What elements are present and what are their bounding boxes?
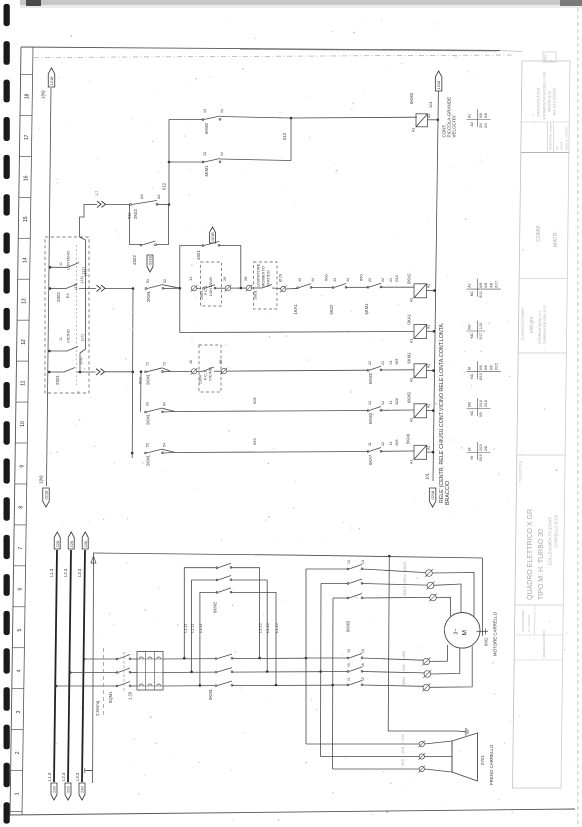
text LIMITATORE MOMENTO STATICO [256,263,271,287]
connector chevron row 288 [97,285,106,291]
svg-text:2S03: 2S03 [200,291,204,300]
label 1(N) top [41,90,46,99]
svg-text:02: 02 [361,677,365,681]
svg-text:HI: HI [470,456,474,460]
contact 6KM2 pole3 [216,588,232,593]
svg-text:44: 44 [311,278,315,282]
bypass branch 4S01 top [180,246,203,289]
node junction row204 x169 [168,203,171,206]
contact 5KM1 pole3 [215,681,233,686]
svg-text:1/15: 1/15 [479,323,483,330]
svg-text:2KM1: 2KM1 [146,413,151,425]
svg-text:2KM1: 2KM1 [146,290,151,302]
svg-text:L1.11: L1.11 [182,623,187,633]
label 660 [359,274,364,281]
label 0Y01 [480,755,485,765]
label 1.20 [128,691,133,700]
svg-text:VIA BRESCIA BOCELLI 240: VIA BRESCIA BOCELLI 240 [543,72,547,120]
svg-text:A4: A4 [157,194,161,199]
svg-text:230: 230 [83,540,88,547]
node junction x141 y372 [140,370,143,373]
svg-text:Ø 29: Ø 29 [279,274,283,282]
svg-text:L2.3: L2.3 [63,568,68,577]
relay coil 6KM2 [414,404,427,418]
svg-text:DISEGNO/DRAW: DISEGNO/DRAW [521,610,525,632]
svg-text:NC: NC [470,410,474,416]
svg-text:6/11: 6/11 [479,291,483,298]
svg-text:28: 28 [243,276,248,281]
contact 2K02 A3-A4 [130,201,158,206]
svg-text:230: 230 [80,786,85,793]
label A1 6KM1 [410,378,414,382]
connector flag L2.3 bottom [65,783,71,800]
wire riser x321 [320,584,323,757]
title block divider 1 [521,152,569,154]
svg-text:~2/-N: ~2/-N [401,746,405,755]
label 2K02 [133,209,138,219]
label 6KM2 row119 [203,109,224,134]
svg-text:0Y01: 0Y01 [480,755,485,765]
label 1KA1 [293,278,315,315]
wire pole outputs [130,659,137,686]
wire rung288 to x180 [163,285,180,289]
svg-text:3: 3 [16,710,22,713]
relay coil 0KN2 [414,284,427,298]
svg-text:3S01: 3S01 [253,289,258,299]
contact power pole3 [116,682,131,687]
svg-text:2S01: 2S01 [55,375,60,385]
svg-text:COMM:: COMM: [536,224,542,242]
label 2S0b [199,375,203,384]
connector flag 0218 under 4S02 [147,255,153,272]
node junction x306 rung [305,657,308,660]
svg-text:26: 26 [218,359,223,364]
svg-text:~1/-N: ~1/-N [401,734,405,743]
wire rung453 [163,449,369,453]
svg-text:2S04: 2S04 [199,375,203,384]
svg-text:TITOLO/TITLE: TITOLO/TITLE [519,461,523,482]
svg-text:A2: A2 [427,364,431,368]
wire 6KM2 out1 [231,568,260,658]
terminal motor U2 [422,658,430,666]
title block QUADRO text [527,509,559,600]
switch 2S01 contact VICINO [67,347,78,352]
wire rung372 c [227,369,368,372]
svg-text:6KM1: 6KM1 [407,352,412,364]
contact 6KM1 21-22 [367,283,382,288]
svg-text:CLIENTE/CUSTOMER: CLIENTE/CUSTOMER [521,307,525,340]
svg-text:03: 03 [347,649,351,653]
ground symbol PE [85,768,93,773]
label 6M1 [484,637,489,646]
wire row 267 LONTANO [50,266,68,268]
label 26 [222,276,227,281]
svg-text:611: 611 [127,212,132,219]
mark D bottom [386,809,389,814]
svg-text:LONTANO: LONTANO [66,251,71,270]
connector chevron row 372 [96,369,105,375]
svg-text:E4: E4 [66,293,70,298]
branch x141 to rung410 [140,372,142,412]
node junction L3 tap [83,658,86,661]
svg-text:Nr. 6 FOGLIO: Nr. 6 FOGLIO [527,614,531,632]
connector flag L3.3 top [82,532,88,549]
contact limitatore [252,285,281,289]
label 2S01 [55,375,60,385]
contact power pole2 [116,668,131,673]
label E4 [66,293,70,298]
svg-text:L3.11: L3.11 [198,623,203,633]
svg-text:U2/1V: U2/1V [403,561,407,571]
label 6QM1 [108,691,113,703]
node junction bus y370 [432,369,435,372]
svg-text:5/10: 5/10 [479,454,483,461]
svg-text:04: 04 [361,649,365,653]
wire top contact feed3 [333,597,348,599]
label 11 rung372 [188,359,193,364]
node junction L1 tap [55,685,58,688]
node junction bus y331 [433,330,436,333]
wire PE horizontal [94,553,483,558]
label 6KM2 rung372 [368,361,385,384]
svg-text:63: 63 [146,402,150,406]
relay coil 0KA1 [414,325,427,339]
svg-text:A2: A2 [427,325,431,329]
svg-text:A2: A2 [427,446,431,450]
svg-text:101: 101 [428,101,433,108]
svg-text:1218: 1218 [436,80,441,90]
label L2.12 [265,622,270,633]
wire row 204 right [157,204,169,206]
svg-text:6/6: 6/6 [479,365,483,370]
text CONT PICCOLA-GRANDE VELOCITA [441,97,456,138]
svg-text:G10: G10 [395,275,399,282]
connector flag 021B above 4S01 [210,227,216,243]
wire coil 5KA6 to bus [427,451,434,453]
connector flag 1218 top of 1(N) [48,68,55,87]
enclosure F.C.1 LONTANO [201,262,222,306]
label 11 B26 [389,398,399,404]
bypass loop 4S02 [130,205,169,245]
label 513 [282,132,287,140]
contact table 0KN2 [467,279,501,298]
wire row 288 from 1(N) [50,288,66,290]
label L1.3 bottom [47,772,52,781]
label 12 [188,276,193,281]
svg-text:1(N): 1(N) [39,475,44,484]
svg-text:612: 612 [162,182,167,190]
label contact rung412 [368,401,385,424]
svg-text:L3.3: L3.3 [77,568,82,577]
wire row162 right [220,159,291,161]
svg-text:0218: 0218 [148,255,153,265]
svg-text:21: 21 [381,361,385,365]
selector switch enclosure 2S0x [45,237,89,393]
svg-text:2.5mmq: 2.5mmq [95,700,100,716]
label 605 [252,397,257,404]
svg-text:11: 11 [21,380,27,385]
connector flag L1.3 bottom [51,783,57,800]
svg-text:43: 43 [298,278,302,282]
terminal 26 rung288 [225,285,232,292]
svg-text:604: 604 [138,377,143,384]
label A1 6KM2 [410,418,414,422]
label 101 top bus [428,101,433,108]
svg-text:2/4: 2/4 [484,123,488,128]
label V2-1 [403,574,407,584]
node junction x321 rung [319,670,322,673]
svg-text:22: 22 [381,278,385,282]
svg-text:229: 229 [66,786,71,793]
svg-text:(12): (12) [74,283,78,290]
svg-text:26: 26 [222,276,227,281]
contact rung pole3 [347,681,363,686]
svg-text:8: 8 [19,506,25,509]
svg-text:2K02: 2K02 [133,209,138,219]
svg-text:1.7: 1.7 [95,191,99,196]
wire terms to motor top [432,573,474,617]
label 2S0x fc1 [200,291,204,300]
label W2-2 [402,677,406,685]
node junction bus y120 [437,119,440,122]
wire tap up L1.11 [184,568,217,659]
node junction L2 tap [69,671,72,674]
earth arrow mark [91,556,96,563]
svg-text:2S02: 2S02 [56,292,61,302]
wire row 204 left [84,204,97,206]
svg-text:4: 4 [16,669,22,672]
wire brake links [424,741,452,772]
label 600 [324,274,329,281]
contact rung pole2 [347,667,363,672]
label A1 0KN2 [410,298,414,302]
label L3.12 [258,622,263,633]
svg-text:51: 51 [146,279,150,283]
svg-text:021B: 021B [210,232,215,242]
svg-text:2/15: 2/15 [479,444,483,451]
svg-text:6KM3: 6KM3 [368,412,373,424]
terminal motor U1 [425,569,433,577]
terminal motor V1 [426,581,434,589]
svg-text:1KA1: 1KA1 [293,304,298,315]
svg-text:6KM2: 6KM2 [407,391,412,403]
svg-text:14: 14 [220,152,224,156]
node junction bus y452 [432,451,435,454]
switch 2S02 contact main [66,245,77,385]
contact table 6KM2 [467,398,491,417]
connector flag 1218 top of bus [435,71,442,91]
label W2-1 [403,585,407,596]
contact power pole1 [116,655,131,660]
wire rung288 chevron to junction [105,288,134,290]
wire 5KM1 outputs [232,658,333,685]
svg-text:0KA1: 0KA1 [407,314,412,325]
node junction out2 [266,670,269,673]
wire tap L2 row [70,672,117,674]
label brake wire1 [401,734,405,743]
svg-text:A1: A1 [468,283,472,287]
svg-text:W2/2: W2/2 [402,677,406,685]
node junction tap3 [199,684,202,687]
svg-text:VICINO: VICINO [66,329,71,343]
motor PE tick [477,627,489,636]
wire coil 0KN2 to bus [427,290,435,292]
connector flag L2.3 top [68,532,74,549]
wire rung372 chevron to junction [104,371,133,373]
enclosure LIMITATORE MOMENTO STATICO [254,262,278,309]
wire brake feed3 [333,768,420,770]
label 5KM1 [208,688,213,700]
svg-text:1218: 1218 [49,76,54,86]
wire riser x333 [332,598,335,769]
svg-text:693: 693 [252,438,257,445]
wire terms to motor bottom [430,645,473,687]
wire branch y162 [169,161,203,163]
contact 4S01 [202,242,220,247]
node junction x291 y118 [290,117,293,120]
svg-text:13: 13 [347,560,351,564]
wire rung288 right1 [286,287,298,290]
wire phase L3.3 [82,550,85,782]
label 5KA6 coil [406,433,411,444]
svg-text:TIPO M. H. TURBO 30: TIPO M. H. TURBO 30 [538,529,545,600]
svg-text:603: 603 [395,440,399,446]
svg-text:229: 229 [69,540,74,547]
terminal brake 1 [418,741,425,748]
label brake wire3 [401,759,405,768]
wire overload outputs [163,659,215,686]
relay coil 6KM3 [416,114,428,127]
svg-text:5: 5 [17,628,23,631]
label (11) [79,357,83,364]
enclosure F.C.1 VICINO [199,345,221,392]
svg-text:W2/1V: W2/1V [403,585,407,596]
svg-text:REV: REV [544,54,548,61]
text FRENO CARRELLO [489,744,494,785]
bypass branch 4S01 right [219,246,241,289]
label V2-2 [402,664,406,671]
svg-text:11: 11 [389,442,393,446]
node junction tap2 [190,671,193,674]
svg-text:6/15: 6/15 [495,363,499,370]
label A2 0KN2 [427,284,431,288]
label A2 5KA6 [427,446,431,450]
label A2 0KA1 [427,325,431,329]
label L1.12 [274,622,279,633]
svg-text:NC: NC [470,291,474,297]
svg-text:10: 10 [20,421,26,427]
label U2-2 [402,651,406,658]
node junction 1(N) x row 372 [48,371,51,374]
svg-text:54: 54 [163,443,167,447]
contact 5KM1 pole1 [215,654,233,659]
title block item row lines [521,122,570,152]
svg-text:2KM1: 2KM1 [146,454,151,466]
svg-text:A1: A1 [410,460,414,464]
label 612 [162,182,167,190]
title block frame [513,61,571,788]
node junction out1 [258,657,261,660]
switch 2S01 contact row 372 [64,368,75,373]
svg-text:11: 11 [59,337,63,341]
svg-text:TEL 031-951829: TEL 031-951829 [553,88,557,116]
wire coil 6KM1 to bus [427,370,434,372]
title block TITOLO [519,461,523,482]
terminal 12 rung288 [191,285,198,292]
svg-text:228: 228 [55,540,60,547]
svg-text:13: 13 [368,401,372,405]
svg-text:A1: A1 [468,114,472,118]
svg-text:B26: B26 [395,398,399,404]
wire coil 6KM3 to bus [428,119,438,121]
label 6KM1 coil [407,352,412,364]
svg-text:6KM2: 6KM2 [368,372,373,384]
label L3.3 bottom [75,772,80,781]
label 28 [243,276,248,281]
label L2.11 [190,623,195,633]
title block REV box [543,52,556,62]
contact 1KA1 43-44 [297,284,312,289]
label 11 LONTANO [59,251,71,270]
svg-text:FRENO CARRELLO: FRENO CARRELLO [489,744,494,785]
svg-text:VELOCITA´: VELOCITA´ [451,114,456,138]
node junction 1(N) x row 288 [49,287,52,290]
label 2KM1 53 54 [146,443,167,466]
relay coil 5KA6 [414,445,427,459]
svg-text:6/6: 6/6 [484,365,488,370]
contact table 6KM3 [467,109,491,128]
title block COMM [536,224,542,242]
svg-text:6/8: 6/8 [479,113,483,118]
wire rung288 right3 [346,286,368,288]
svg-text:1: 1 [15,792,21,795]
svg-text:STATICO: STATICO [266,270,271,287]
svg-text:R3: R3 [555,146,559,150]
labels (12)(13)(17) [74,269,88,290]
wire rung453 d [381,450,414,452]
title block customer text [521,305,547,344]
svg-text:SOLLEVAMENTO 2/3/4/5: SOLLEVAMENTO 2/3/4/5 [548,517,553,565]
wire tap up L2.11 [192,580,217,672]
wire tap L1 row [56,685,117,687]
contact 5KM1 pole2 [215,668,233,673]
svg-text:12: 12 [381,442,385,446]
svg-text:L2.11: L2.11 [190,623,195,633]
contact 6KM1 13-14 row162 [202,159,221,163]
wire row119 to coil [220,117,417,119]
label 1(N) bottom [39,475,44,484]
wire drop x84 from row 204 [80,205,86,373]
terminal brake 3 [418,766,425,773]
label 13 14 6KM3 [347,560,365,564]
contact 6KM3 pole1 [347,565,363,570]
svg-text:5K02: 5K02 [329,304,334,314]
wire top contact feed2 [321,583,348,585]
terminal 28 rung288 [246,285,253,292]
label A2 6KM2 [427,404,431,408]
contact 6KM2 13-14 row119 [202,116,221,120]
svg-text:L1.12: L1.12 [274,622,279,633]
svg-text:6KM3: 6KM3 [409,92,414,104]
svg-text:43: 43 [333,278,337,282]
wire rung feeds [306,658,348,685]
node junction x133 y453 [131,452,134,455]
svg-text:22: 22 [368,361,372,365]
wire row 372 in box [49,371,64,373]
svg-text:L3.12: L3.12 [258,622,263,633]
label 01 02 [347,677,365,681]
wire PE riser [92,553,95,784]
